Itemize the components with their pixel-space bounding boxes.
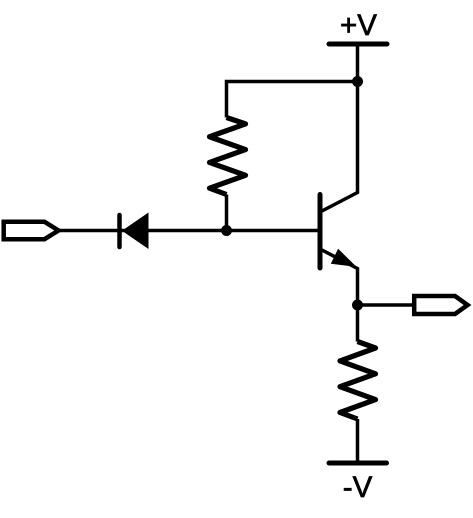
svg-text:+V: +V [340,9,377,42]
svg-text:-V: -V [343,471,373,504]
